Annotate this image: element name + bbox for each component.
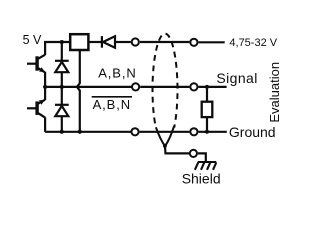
svg-text:Ground: Ground	[229, 124, 276, 140]
overline of inverted A,B,N	[92, 96, 132, 98]
node ground-resistor junction	[205, 130, 209, 134]
node row2-diode junction	[60, 130, 64, 134]
connector pin P6 ground-right	[190, 128, 197, 135]
wire shield drop	[165, 146, 189, 154]
svg-text:Signal: Signal	[216, 70, 257, 86]
ground chassis symbol	[195, 162, 216, 170]
wire fork upper	[77, 83, 80, 87]
wire fork down to row2	[79, 90, 81, 132]
wire resistor top	[206, 87, 208, 102]
wire fork lower	[77, 87, 80, 91]
wire Q2 bottom to row2	[44, 117, 46, 132]
wire row1 to Q2 top	[44, 87, 46, 100]
diode D1	[55, 41, 69, 87]
wire top row supply	[199, 41, 225, 43]
connector pin P5 ground-left	[131, 128, 138, 135]
svg-text:5 V: 5 V	[23, 33, 42, 47]
wire signal row to P4	[140, 86, 189, 88]
connector pin P2 top-right	[190, 39, 197, 46]
wire top row to P2	[140, 41, 190, 43]
svg-text:A,B,N: A,B,N	[93, 97, 131, 112]
resistor R1	[202, 102, 213, 117]
wire row1 A,B,N	[45, 86, 131, 88]
wire row2 A,B,N inverted	[45, 131, 131, 133]
wire ground row to P6	[140, 131, 190, 133]
wire shield to chassis	[198, 153, 206, 161]
node shield junction	[163, 144, 167, 148]
node rail-diode junction	[60, 40, 64, 44]
node row2-fork junction	[78, 130, 82, 134]
svg-text:Shield: Shield	[182, 171, 221, 187]
wire signal row right	[199, 86, 227, 88]
transistor Q2	[27, 100, 45, 118]
wire shield gather right	[165, 126, 174, 146]
connector pin P7 shield	[190, 150, 197, 157]
transistor Q1	[27, 55, 45, 73]
resistor box U1	[70, 34, 88, 50]
wire resistor bottom	[206, 117, 208, 132]
wire shield gather left	[156, 127, 165, 146]
svg-text:Evaluation: Evaluation	[267, 62, 282, 123]
connector pin P1 top-left	[132, 38, 139, 45]
connector pin P4 signal-right	[190, 83, 197, 90]
svg-text:A,B,N: A,B,N	[98, 65, 136, 80]
node signal-resistor junction	[205, 85, 209, 89]
wire box bottom	[79, 50, 81, 84]
wire Q1 emitter to row1	[44, 72, 46, 87]
wire box right to diode D3	[88, 41, 101, 43]
cable shield ellipse dashed	[152, 34, 177, 128]
wire ground row right	[199, 131, 227, 133]
svg-text:4,75-32 V: 4,75-32 V	[229, 37, 277, 49]
connector pin P3 signal-left	[132, 83, 139, 90]
node row1-diode junction	[60, 85, 64, 89]
node row1-left junction	[43, 85, 47, 89]
diode D2	[55, 87, 69, 132]
wire 5V rail with corner down	[45, 42, 70, 55]
diode D3	[102, 36, 131, 48]
